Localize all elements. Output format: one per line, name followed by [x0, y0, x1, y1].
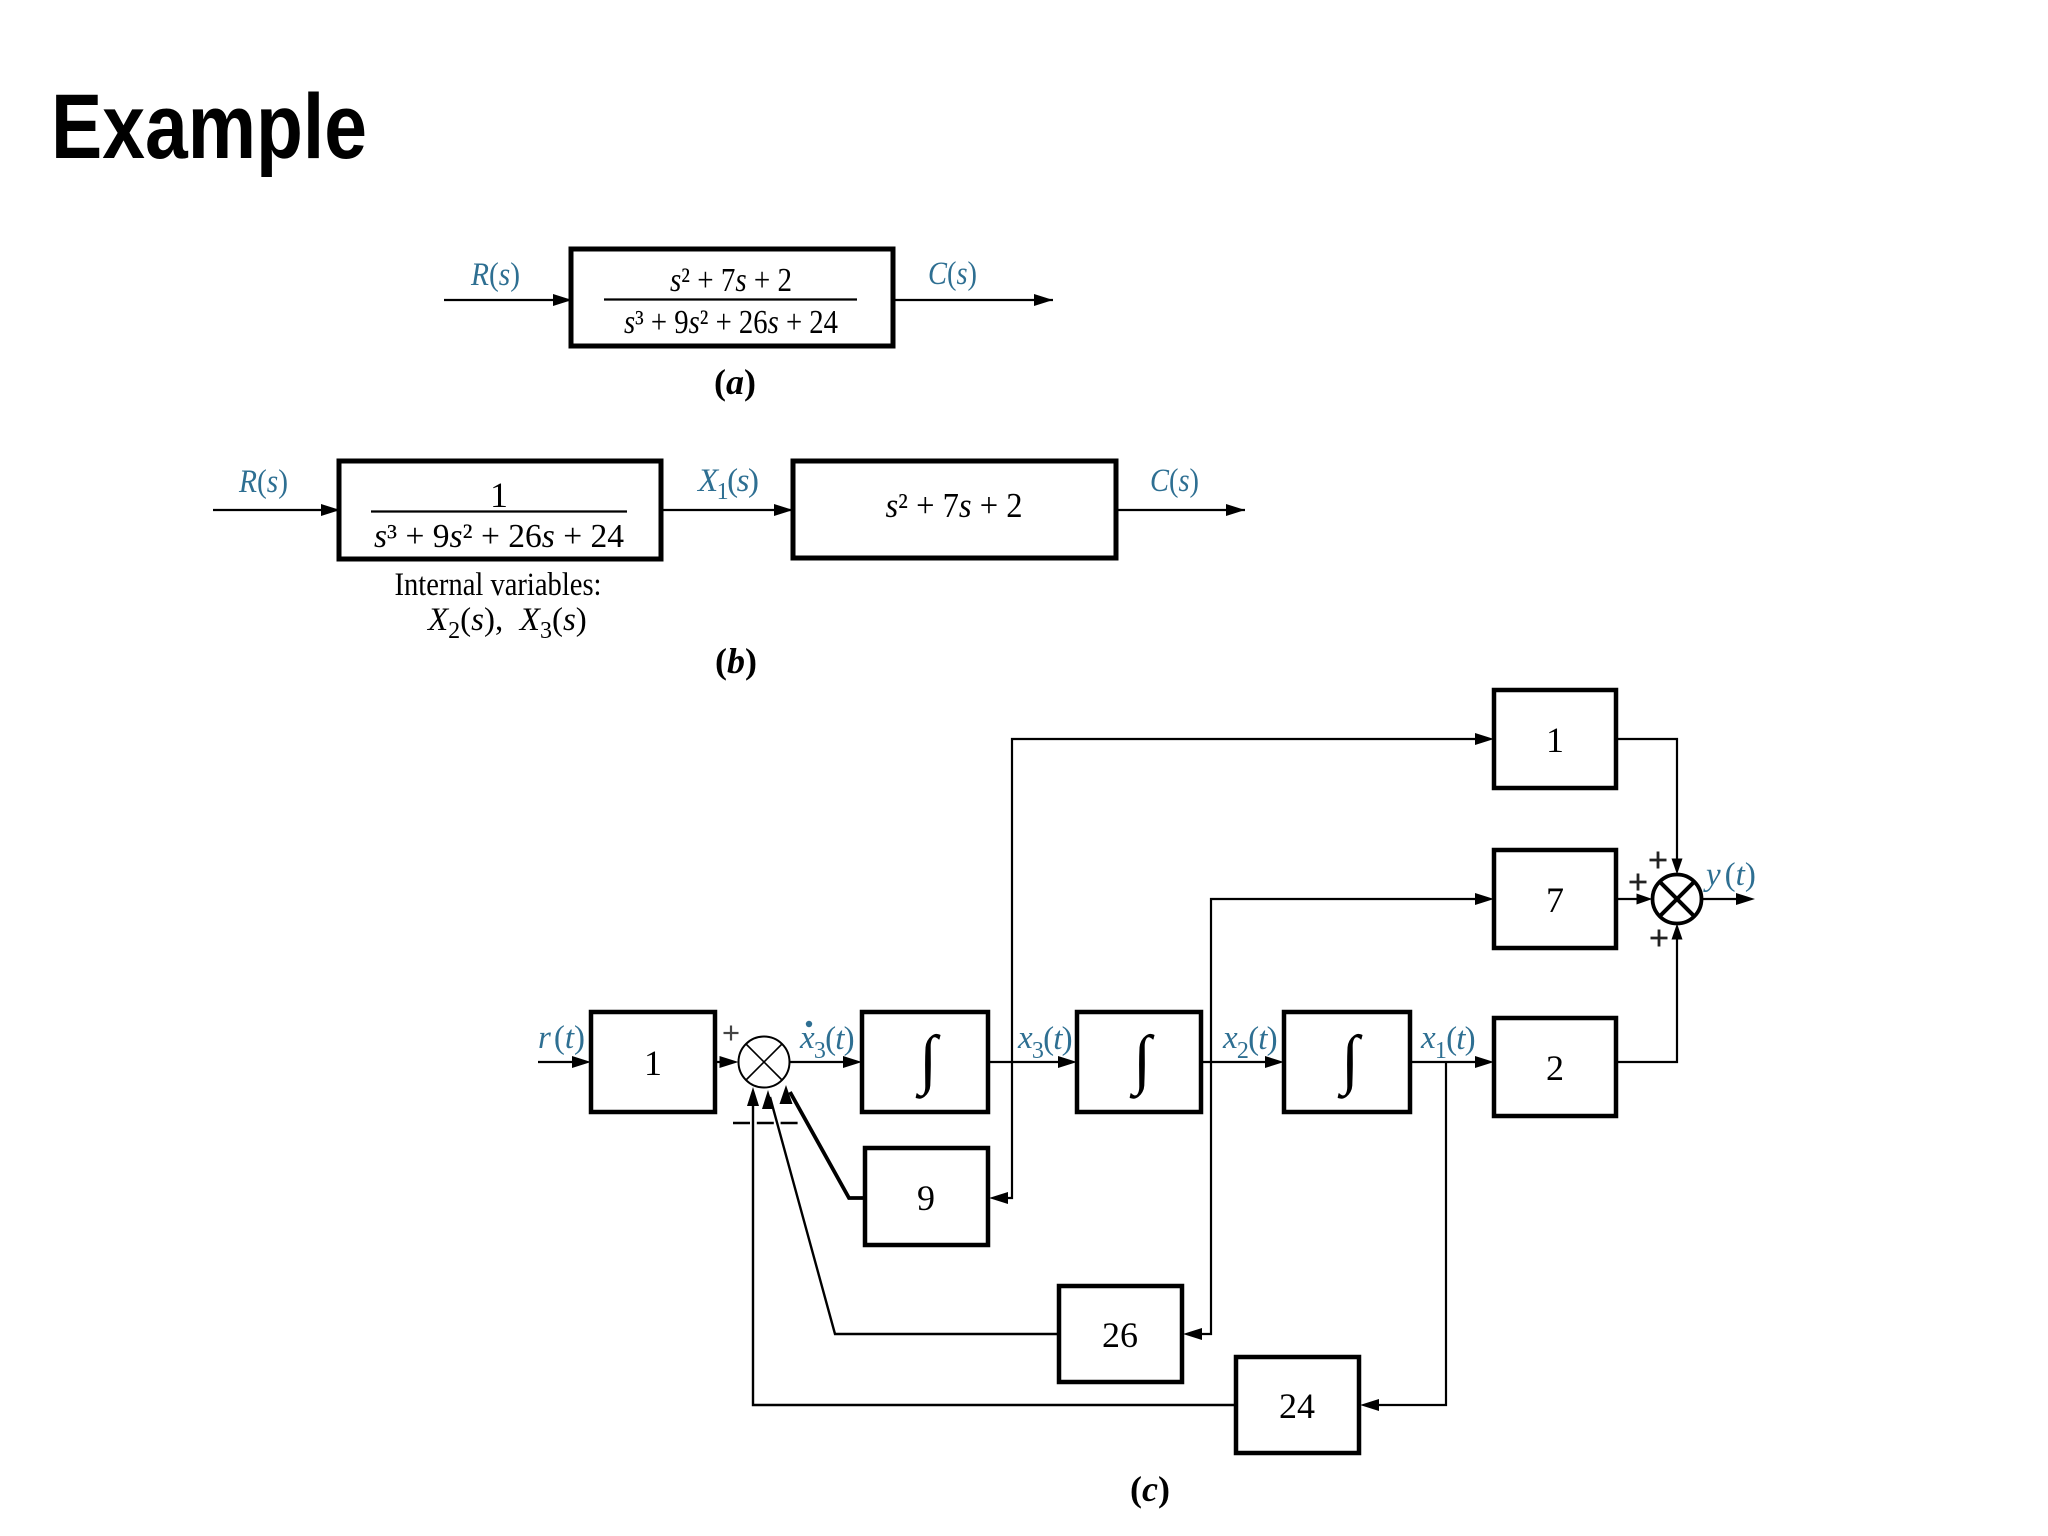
wire input arrow (a) — [444, 294, 572, 306]
wire x2 branch up to gain-7 rail (c) — [1211, 899, 1483, 1062]
svg-text:(c): (c) — [1130, 1469, 1170, 1509]
svg-text:r(t): r(t) — [538, 1020, 585, 1056]
fraction bar (a) — [604, 298, 857, 300]
arrowhead into gain 26 (c) — [1183, 1328, 1202, 1340]
svg-text:9: 9 — [917, 1178, 935, 1218]
block gain 26 (c) — [1059, 1286, 1182, 1382]
wire gain-2 output to summer bottom (c) — [1616, 939, 1677, 1062]
arrowhead gain-7 into summer left (c) — [1637, 894, 1653, 905]
block 1/(s^3+9s^2+26s+24) (b) — [339, 461, 661, 559]
svg-text:1: 1 — [1546, 720, 1564, 760]
fraction bar (b) — [371, 510, 627, 512]
wire input arrow r(t) (c) — [538, 1056, 591, 1068]
block input gain 1 (c) — [591, 1012, 715, 1112]
block integrator 2 (c) — [1077, 1012, 1201, 1112]
wire gain 26 output to summer S1 (c) — [770, 1097, 1059, 1334]
svg-text:C(s): C(s) — [1150, 463, 1199, 499]
svg-text:Example: Example — [51, 76, 367, 178]
svg-text:x1(t): x1(t) — [1420, 1020, 1475, 1064]
block integrator 3 (c) — [862, 1012, 988, 1112]
wire gain-7 output to summer (c) — [1616, 898, 1637, 900]
wire x2 node down to gain 26 input (c) — [1189, 1062, 1211, 1334]
arrowhead into gain 7 (c) — [1475, 893, 1494, 905]
wire summer S1 to integrator 3 (c) — [790, 1056, 863, 1068]
svg-text:7: 7 — [1546, 880, 1564, 920]
svg-text:s² + 7s + 2: s² + 7s + 2 — [886, 486, 1023, 525]
svg-text:s³ + 9s² + 26s + 24: s³ + 9s² + 26s + 24 — [374, 518, 624, 555]
wire gain 24 output to summer S1 (c) — [753, 1093, 1236, 1405]
arrowhead gain-2 into summer bottom (c) — [1672, 924, 1683, 940]
wire x3 node down to gain 9 input (c) — [995, 1062, 1012, 1198]
svg-text:26: 26 — [1102, 1315, 1138, 1355]
svg-text:(b): (b) — [715, 641, 757, 681]
svg-text:X1(s): X1(s) — [696, 463, 758, 505]
svg-text:(a): (a) — [714, 362, 756, 402]
wire X1(s) arrow (b) — [661, 504, 793, 516]
wire integrator1 to gain2 x1(t) (c) — [1410, 1056, 1494, 1068]
wire output arrow (a) — [893, 294, 1053, 306]
node xdot3(t) label (c) — [799, 1020, 854, 1064]
summing junction S1 (c) — [739, 1037, 790, 1088]
arrowhead gain-26 into summer S1 (c) — [762, 1090, 774, 1109]
plus sign left of summer (c) — [1630, 874, 1647, 891]
arrowhead into gain 24 (c) — [1360, 1399, 1379, 1411]
arrowhead into top gain 1 (c) — [1475, 733, 1494, 745]
block gain 24 (c) — [1236, 1357, 1359, 1453]
svg-text:Internal variables:: Internal variables: — [395, 567, 602, 603]
block top gain 1 (c) — [1494, 690, 1616, 788]
wire integrator2 to integrator1 x2(t) (c) — [1201, 1056, 1284, 1068]
wire integrator3 to integrator2 x3(t) (c) — [988, 1056, 1077, 1068]
svg-text:y(t): y(t) — [1703, 857, 1756, 893]
wire x3 branch up to gain-1 rail (c) — [1012, 739, 1483, 1062]
minus signs of summer S1 feedback (c) — [733, 1122, 801, 1125]
plus sign top of summer (c) — [1650, 852, 1667, 869]
block s^2+7s+2 (b) — [793, 461, 1116, 558]
svg-text:2: 2 — [1546, 1048, 1564, 1088]
svg-text:R(s): R(s) — [238, 464, 288, 500]
svg-text:x3(t): x3(t) — [1017, 1020, 1072, 1064]
wire output arrow (b) — [1116, 504, 1245, 516]
plus sign input of summer S1 (c) — [724, 1026, 739, 1041]
wire input arrow (b) — [213, 504, 340, 516]
wire gain1 to summer S1 (c) — [715, 1056, 739, 1068]
wire gain 9 output to summer S1 (c) — [790, 1092, 865, 1198]
summing junction output S2 (c) — [1653, 875, 1702, 924]
plus sign below summer (c) — [1651, 930, 1668, 947]
svg-text:1: 1 — [490, 475, 508, 515]
svg-text:C(s): C(s) — [928, 256, 977, 292]
arrowhead gain-9 into summer S1 (c) — [780, 1085, 793, 1104]
svg-text:24: 24 — [1279, 1386, 1315, 1426]
svg-text:X2(s), X3(s): X2(s), X3(s) — [426, 602, 587, 644]
wire y(t) output arrow (c) — [1701, 893, 1756, 905]
wire x1 node down to gain 24 input (c) — [1366, 1062, 1446, 1405]
block output gain 2 (c) — [1494, 1018, 1616, 1116]
arrowhead into gain 9 (c) — [989, 1192, 1008, 1204]
arrowhead gain-1 into summer top (c) — [1672, 859, 1683, 875]
svg-text:R(s): R(s) — [470, 257, 520, 293]
svg-text:1: 1 — [644, 1043, 662, 1083]
block transfer function (s^2+7s+2)/(s^3+9s^2+26s+24) (a) — [571, 249, 893, 346]
block gain 7 (c) — [1494, 850, 1616, 948]
svg-text:s² + 7s + 2: s² + 7s + 2 — [670, 262, 792, 299]
block gain 9 (c) — [865, 1148, 988, 1245]
arrowhead gain-24 into summer S1 (c) — [747, 1087, 759, 1106]
block integrator 1 (c) — [1284, 1012, 1410, 1112]
svg-text:s³ + 9s² + 26s + 24: s³ + 9s² + 26s + 24 — [624, 304, 838, 341]
wire gain-1 output to summer (c) — [1616, 739, 1677, 859]
